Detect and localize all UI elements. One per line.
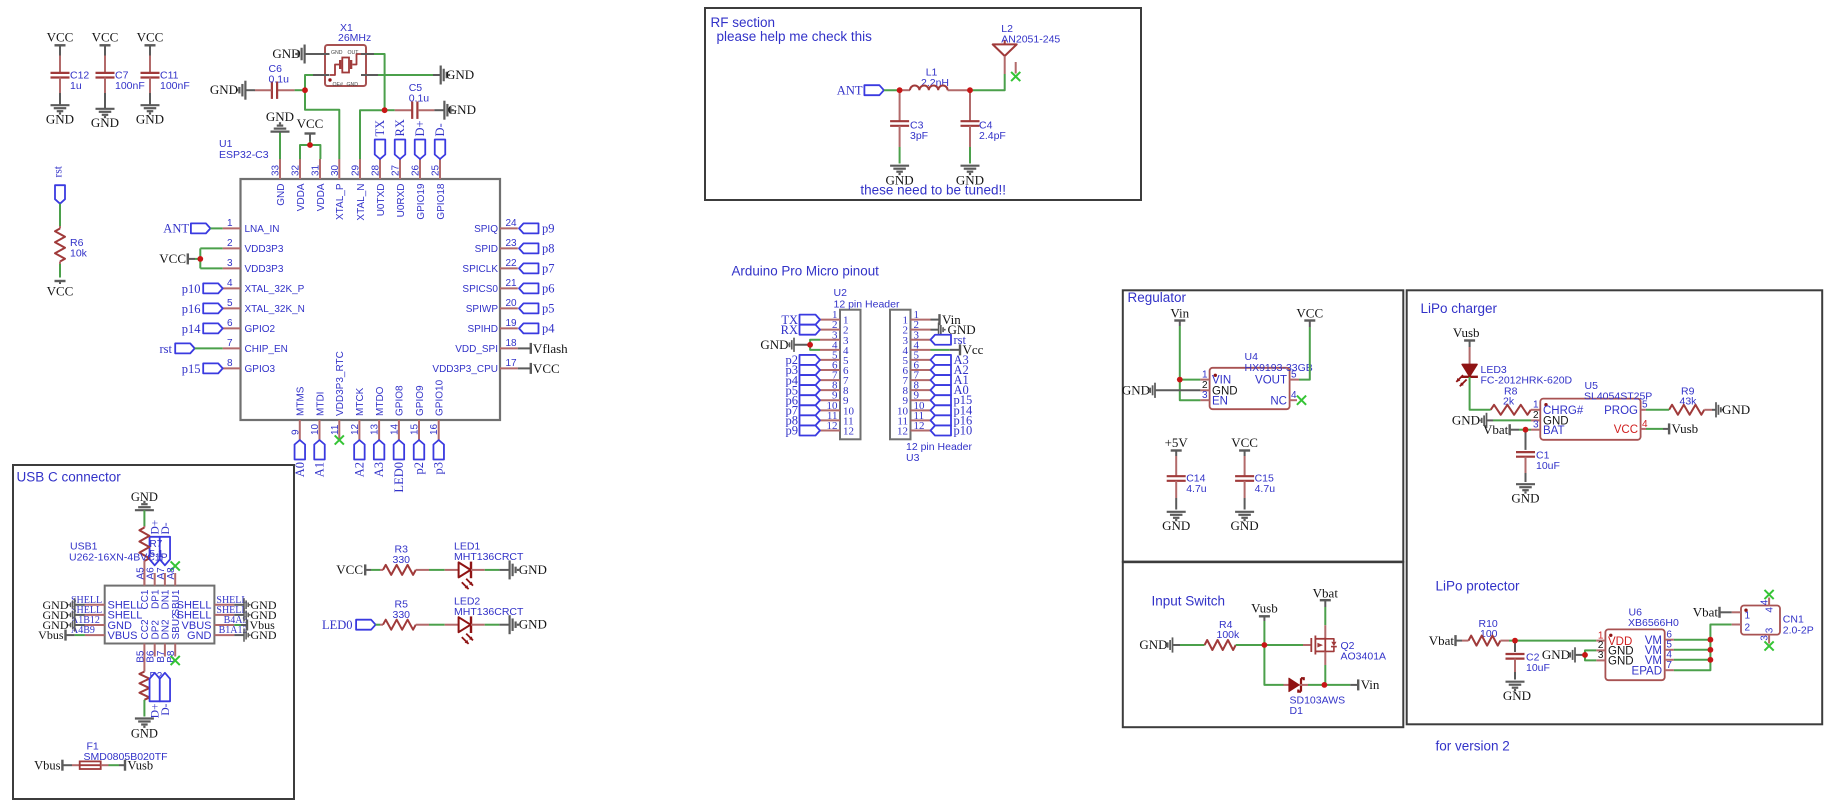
svg-text:4: 4 xyxy=(1291,390,1297,401)
U1 pin 26 GPIO19 xyxy=(411,159,427,220)
svg-text:3: 3 xyxy=(1533,420,1539,431)
wire xyxy=(969,147,971,164)
net port p3 U2 xyxy=(786,363,821,377)
wire xyxy=(200,247,222,249)
wire xyxy=(1244,498,1246,510)
wire xyxy=(1324,665,1326,685)
net port D- bottom xyxy=(160,673,172,716)
svg-text:12: 12 xyxy=(914,420,925,432)
U3 pin 6 xyxy=(903,360,931,378)
svg-text:10: 10 xyxy=(310,423,321,435)
svg-text:VCC: VCC xyxy=(1296,306,1323,321)
svg-text:GND: GND xyxy=(276,184,287,206)
net port p15 xyxy=(182,362,223,376)
net port p2 xyxy=(412,440,426,475)
svg-text:1u: 1u xyxy=(70,80,82,92)
svg-text:EPAD: EPAD xyxy=(1632,665,1662,677)
svg-text:GND: GND xyxy=(347,82,359,88)
svg-text:0.1u: 0.1u xyxy=(409,93,430,105)
wire xyxy=(485,624,500,626)
svg-text:BAT: BAT xyxy=(1543,425,1565,437)
wire xyxy=(195,347,223,349)
svg-text:MHT136CRCT: MHT136CRCT xyxy=(454,606,524,618)
svg-text:GND: GND xyxy=(46,112,74,127)
svg-text:XTAL_32K_N: XTAL_32K_N xyxy=(245,304,305,315)
net port p16 xyxy=(182,302,223,316)
U1 pin 25 GPIO18 xyxy=(431,159,447,220)
wire xyxy=(210,227,222,229)
svg-text:0.1u: 0.1u xyxy=(269,74,290,86)
svg-text:VDD3P3_RTC: VDD3P3_RTC xyxy=(335,351,346,416)
ground for C5 xyxy=(434,101,476,120)
U1 pin 2 VDD3P3 xyxy=(223,238,284,255)
svg-text:D1: D1 xyxy=(1290,705,1304,717)
svg-text:GND: GND xyxy=(1452,413,1480,428)
ground below USB1 xyxy=(131,719,158,741)
power VCC for R6 xyxy=(47,281,74,299)
U1 pin 3 VDD3P3 xyxy=(223,258,284,275)
net port p9 U2 xyxy=(786,424,821,438)
net port A0 xyxy=(293,440,307,477)
net port p14 U3 xyxy=(931,403,974,417)
svg-text:Vusb: Vusb xyxy=(1251,601,1278,616)
wire xyxy=(810,340,820,350)
wire xyxy=(1299,327,1310,380)
U2 pin 12 xyxy=(820,420,854,438)
USB1 pin SHELL SHELL xyxy=(71,595,142,612)
svg-text:p16: p16 xyxy=(182,302,201,316)
svg-text:VCC: VCC xyxy=(137,30,164,45)
capacitor C12 xyxy=(51,56,90,94)
net port p9 xyxy=(519,222,555,236)
svg-text:ANT: ANT xyxy=(837,83,863,97)
svg-text:D-: D- xyxy=(160,522,172,534)
svg-text:VDD3P3: VDD3P3 xyxy=(245,264,284,275)
svg-text:D-: D- xyxy=(433,123,447,136)
svg-text:VOUT: VOUT xyxy=(1255,375,1287,387)
wire xyxy=(59,93,61,105)
U3 pin 1 xyxy=(903,309,931,327)
svg-text:3: 3 xyxy=(1759,635,1770,641)
power Vusb at F1 xyxy=(119,758,153,772)
svg-text:VCC: VCC xyxy=(47,30,74,45)
svg-text:2.0-2P: 2.0-2P xyxy=(1783,625,1814,637)
wire xyxy=(1308,684,1324,686)
net port ANT xyxy=(163,221,210,235)
svg-text:SPIQ: SPIQ xyxy=(474,224,498,235)
svg-text:these need to be tuned!!: these need to be tuned!! xyxy=(860,183,1006,198)
svg-text:31: 31 xyxy=(311,164,322,176)
power VCC at VDD3P3_CPU xyxy=(518,361,560,376)
svg-text:ESP32-C3: ESP32-C3 xyxy=(219,149,269,161)
U3 pin 3 xyxy=(903,329,931,347)
ground for LED1 xyxy=(499,560,547,579)
power VCC for C12 xyxy=(47,30,74,46)
ground for C14 xyxy=(1162,512,1190,533)
wire xyxy=(59,264,61,278)
svg-text:Vbus: Vbus xyxy=(34,758,61,772)
svg-text:PROG: PROG xyxy=(1604,405,1638,417)
wire junction xyxy=(1262,642,1268,648)
svg-text:A2: A2 xyxy=(352,462,366,477)
U1 pin 16 GPIO10 xyxy=(429,379,445,440)
svg-text:4: 4 xyxy=(1759,599,1770,605)
U1 pin 32 VDDA xyxy=(291,159,307,211)
fuse F1 xyxy=(72,741,168,770)
wire junction xyxy=(897,87,903,93)
wire xyxy=(59,45,61,55)
svg-text:GND: GND xyxy=(1139,637,1167,652)
svg-text:13: 13 xyxy=(370,423,381,435)
U2 pin 4 xyxy=(820,339,849,357)
svg-text:7: 7 xyxy=(227,338,233,349)
wire xyxy=(970,74,1005,90)
wire xyxy=(309,141,311,145)
U1 pin 6 GPIO2 xyxy=(223,318,276,335)
svg-text:p14: p14 xyxy=(182,322,202,336)
net port rst U3 xyxy=(931,333,967,347)
svg-text:2.2nH: 2.2nH xyxy=(921,77,949,89)
U1 pin 8 GPIO3 xyxy=(223,358,276,375)
svg-text:TX: TX xyxy=(373,120,387,137)
svg-text:Vusb: Vusb xyxy=(1453,325,1480,340)
resistor R8 xyxy=(1491,386,1541,415)
wire xyxy=(305,75,339,159)
svg-text:p6: p6 xyxy=(542,282,555,296)
svg-text:1: 1 xyxy=(227,218,233,229)
power Vin at D1 xyxy=(1350,677,1380,692)
power Vbat at R10 xyxy=(1429,633,1462,648)
capacitor C3 xyxy=(890,90,928,147)
svg-text:4.7u: 4.7u xyxy=(1186,483,1207,495)
U1 pin 29 XTAL_N xyxy=(351,159,367,221)
net port p6 xyxy=(519,282,555,296)
svg-text:OUT: OUT xyxy=(348,50,360,56)
power Vusb at LED3 xyxy=(1453,325,1480,347)
wire xyxy=(143,510,145,526)
note text for version 2 xyxy=(1436,739,1510,754)
svg-text:MTMS: MTMS xyxy=(296,386,307,416)
U1 pin 30 XTAL_P xyxy=(330,159,346,220)
wire xyxy=(1646,409,1669,411)
svg-text:5: 5 xyxy=(227,298,233,309)
svg-text:Vbus: Vbus xyxy=(38,628,64,642)
USB1 pin A7 DN1 xyxy=(156,567,172,610)
USB1 pin B1A12 GND right xyxy=(187,625,247,642)
ground at USB1 left xyxy=(43,608,85,622)
svg-text:rst: rst xyxy=(160,342,173,356)
svg-text:3: 3 xyxy=(227,258,233,269)
net port D- xyxy=(433,123,447,159)
svg-text:p5: p5 xyxy=(542,302,555,316)
net port p5 U2 xyxy=(786,383,821,397)
svg-text:GPIO10: GPIO10 xyxy=(435,379,446,416)
svg-text:p10: p10 xyxy=(182,282,201,296)
power Vflash at VDD_SPI xyxy=(518,341,568,356)
svg-text:24: 24 xyxy=(506,218,518,229)
svg-text:12: 12 xyxy=(897,425,908,437)
wire xyxy=(884,89,900,91)
svg-text:3: 3 xyxy=(1202,390,1208,401)
power VCC at U1 pins 32-31 xyxy=(297,116,324,141)
wire xyxy=(899,147,901,164)
U3 pin 4 xyxy=(903,339,931,357)
ground for C11 xyxy=(136,105,164,126)
U2 pin 5 xyxy=(820,349,849,367)
svg-text:5: 5 xyxy=(1291,369,1297,380)
svg-text:p2: p2 xyxy=(412,462,426,475)
U3 pin 12 xyxy=(897,420,931,438)
U1 pin 1 LNA_IN xyxy=(223,218,280,235)
wire xyxy=(1674,639,1711,641)
no-connect at U1 pin 11 xyxy=(335,435,344,444)
svg-text:GPIO18: GPIO18 xyxy=(436,183,447,220)
ground at U2 xyxy=(760,337,810,352)
U2 pin 7 xyxy=(820,370,849,388)
wire junction xyxy=(382,107,388,113)
power VCC at R3 xyxy=(336,562,371,577)
svg-text:HX9193-33GB: HX9193-33GB xyxy=(1245,362,1313,374)
resistor R4 xyxy=(1205,619,1240,650)
svg-text:GND: GND xyxy=(519,617,547,632)
no-connect at U4 NC xyxy=(1297,396,1306,405)
svg-text:VCC: VCC xyxy=(297,116,324,131)
net port p2 U2 xyxy=(786,353,821,367)
USB1 pin A8 SBU1 xyxy=(166,567,182,616)
net port p4 xyxy=(519,322,555,336)
svg-text:1: 1 xyxy=(1745,611,1751,622)
crystal X1 xyxy=(313,22,378,88)
no-connect at CN1 pin 4 xyxy=(1765,590,1774,599)
U3 pin 9 xyxy=(903,390,931,408)
capacitor C11 xyxy=(141,56,190,94)
net port D+ bottom xyxy=(150,673,162,718)
U3 pin 7 xyxy=(903,370,931,388)
svg-text:GND: GND xyxy=(448,102,476,117)
svg-text:Regulator: Regulator xyxy=(1128,290,1187,305)
net port p4 U2 xyxy=(786,373,821,387)
net port p8 xyxy=(519,242,555,256)
wire xyxy=(149,93,151,105)
header U3 body xyxy=(890,310,972,464)
svg-text:VCC: VCC xyxy=(159,251,186,266)
transistor Q2 AO3401A xyxy=(1303,625,1386,665)
wire xyxy=(429,569,445,571)
svg-text:p9: p9 xyxy=(786,424,799,438)
wire xyxy=(1324,607,1326,625)
svg-text:VDDA: VDDA xyxy=(296,183,307,211)
led LED1 xyxy=(445,541,524,590)
svg-text:GPIO9: GPIO9 xyxy=(415,385,426,416)
svg-text:GPIO19: GPIO19 xyxy=(416,183,427,220)
wire xyxy=(1646,428,1663,430)
U1 pin 33 GND xyxy=(271,159,287,206)
svg-text:LED0: LED0 xyxy=(322,618,353,632)
svg-text:GND: GND xyxy=(1503,688,1531,703)
net port D+ xyxy=(413,120,427,159)
svg-text:p4: p4 xyxy=(542,322,555,336)
ground above USB1 xyxy=(131,490,158,510)
svg-text:12: 12 xyxy=(843,425,854,437)
power VCC at U4 xyxy=(1296,306,1323,328)
resistor R10 xyxy=(1462,618,1509,646)
net port p14 xyxy=(182,322,223,336)
section box: RF section xyxy=(705,8,1141,200)
svg-text:VCC: VCC xyxy=(47,284,74,299)
svg-text:CHIP_EN: CHIP_EN xyxy=(245,344,288,355)
wire xyxy=(1263,621,1265,645)
net port D- top xyxy=(160,522,172,565)
wire junction xyxy=(807,342,813,348)
net port A0 U3 xyxy=(931,383,969,397)
svg-text:p10: p10 xyxy=(954,423,973,437)
svg-text:p15: p15 xyxy=(182,362,201,376)
svg-text:21: 21 xyxy=(506,278,518,289)
U1 pin 12 MTCK xyxy=(350,387,366,440)
U1 pin 20 SPIWP xyxy=(466,298,518,315)
power Vbus at F1 xyxy=(34,758,72,772)
net port A1 U3 xyxy=(931,373,969,387)
svg-text:26MHz: 26MHz xyxy=(338,32,371,44)
ground X1 right xyxy=(378,66,474,85)
U3 pin 8 xyxy=(903,380,931,398)
ground at USB1 right B1A12 xyxy=(234,628,277,642)
svg-text:U2: U2 xyxy=(834,287,848,299)
wire junction xyxy=(1708,647,1714,653)
svg-text:VDD3P3_CPU: VDD3P3_CPU xyxy=(432,364,498,375)
svg-text:D+: D+ xyxy=(413,120,427,136)
wire xyxy=(1264,644,1303,646)
svg-text:VDDA: VDDA xyxy=(316,183,327,211)
svg-text:for version 2: for version 2 xyxy=(1436,739,1510,754)
section box: USB C connector xyxy=(13,465,294,799)
resistor R9 xyxy=(1669,386,1712,415)
ground at U1 pin 33 xyxy=(266,109,294,159)
ground for C6 xyxy=(210,81,255,100)
net port TX xyxy=(373,120,387,159)
inductor L1 xyxy=(900,67,970,91)
svg-text:Vbat: Vbat xyxy=(1313,586,1339,601)
svg-text:A8: A8 xyxy=(166,567,177,580)
no-connect at CN1 pin 3 xyxy=(1765,641,1774,650)
U3 pin 5 xyxy=(903,349,931,367)
U1 pin 10 MTDI xyxy=(310,392,326,440)
wire xyxy=(385,109,395,111)
no-connect at L2 pin 2 xyxy=(1011,72,1020,81)
svg-text:Input Switch: Input Switch xyxy=(1152,594,1226,609)
ground for R9 xyxy=(1712,402,1750,418)
svg-text:18: 18 xyxy=(506,338,518,349)
svg-text:Vflash: Vflash xyxy=(533,341,568,356)
svg-text:LiPo charger: LiPo charger xyxy=(1421,301,1498,316)
svg-text:MTDO: MTDO xyxy=(375,386,386,416)
U2 pin 10 xyxy=(820,400,855,418)
svg-text:GND: GND xyxy=(251,628,277,642)
svg-text:GND: GND xyxy=(1608,656,1634,668)
U1 pin 5 XTAL_32K_N xyxy=(223,298,305,315)
svg-text:VBUS: VBUS xyxy=(108,630,138,642)
svg-text:GND: GND xyxy=(1231,518,1259,533)
svg-text:p3: p3 xyxy=(432,462,446,475)
U1 pin 4 XTAL_32K_P xyxy=(223,278,305,295)
svg-text:4.7u: 4.7u xyxy=(1255,483,1276,495)
power +5V at C14 xyxy=(1165,435,1189,456)
svg-text:23: 23 xyxy=(506,238,518,249)
U1 pin 31 VDDA xyxy=(311,159,327,211)
svg-text:28: 28 xyxy=(371,164,382,176)
svg-text:8: 8 xyxy=(227,358,233,369)
svg-text:14: 14 xyxy=(389,423,400,435)
ic U1 ESP32-C3 body xyxy=(219,138,500,420)
svg-text:30: 30 xyxy=(330,164,341,176)
capacitor C15 xyxy=(1235,456,1275,498)
svg-text:100nF: 100nF xyxy=(115,80,145,92)
capacitor C7 xyxy=(96,56,145,94)
svg-text:22: 22 xyxy=(506,258,518,269)
net port p8 U2 xyxy=(786,414,821,428)
U3 pin 10 xyxy=(897,400,931,418)
wire xyxy=(104,45,106,55)
svg-text:VCC: VCC xyxy=(1614,424,1638,436)
net port p10 xyxy=(182,282,223,296)
net port RX xyxy=(393,119,407,159)
svg-text:10uF: 10uF xyxy=(1526,662,1550,674)
U3 pin 11 xyxy=(897,410,930,428)
svg-text:p8: p8 xyxy=(542,242,555,256)
power Vbus at USB1 right xyxy=(234,618,275,632)
capacitor C4 xyxy=(961,90,1006,147)
net port rst xyxy=(53,165,66,204)
ground for C1 xyxy=(1511,484,1539,505)
svg-text:XTAL_N: XTAL_N xyxy=(356,184,367,221)
capacitor C1 xyxy=(1516,430,1560,473)
ground at U6 xyxy=(1542,647,1585,662)
svg-text:32: 32 xyxy=(291,164,302,176)
svg-text:+5V: +5V xyxy=(1165,435,1189,450)
power Vbat at Q2 xyxy=(1313,586,1339,608)
svg-text:Vusb: Vusb xyxy=(1672,421,1699,436)
wire xyxy=(109,764,120,766)
wire junction xyxy=(1177,377,1183,383)
wire xyxy=(1674,649,1711,651)
svg-text:RX: RX xyxy=(781,323,798,337)
wire xyxy=(1264,645,1283,685)
svg-text:NC: NC xyxy=(1270,395,1287,407)
svg-text:GND: GND xyxy=(210,82,238,97)
svg-text:GND: GND xyxy=(266,109,294,124)
svg-text:VCC: VCC xyxy=(1231,435,1258,450)
ground for LED2 xyxy=(499,615,547,634)
svg-text:7: 7 xyxy=(1666,660,1672,671)
net port A3 U3 xyxy=(931,353,969,367)
power VCC for C7 xyxy=(92,30,119,46)
ground for C15 xyxy=(1231,512,1259,533)
USB1 pin B5 CC2 xyxy=(135,619,151,663)
U1 pin 22 SPICLK xyxy=(462,258,517,275)
ground at U4 xyxy=(1122,383,1201,398)
svg-text:2: 2 xyxy=(1745,623,1751,634)
svg-text:LED0: LED0 xyxy=(392,462,406,493)
section title LiPo protector xyxy=(1436,579,1521,594)
wire xyxy=(371,569,380,571)
net port p7 U2 xyxy=(786,404,821,418)
U1 pin 17 VDD3P3_CPU xyxy=(432,358,517,375)
svg-text:RF section: RF section xyxy=(711,15,776,30)
net port p15 U3 xyxy=(931,393,973,407)
svg-text:20: 20 xyxy=(506,298,518,309)
U2 pin 3 xyxy=(820,329,849,347)
svg-text:GND: GND xyxy=(91,115,119,130)
